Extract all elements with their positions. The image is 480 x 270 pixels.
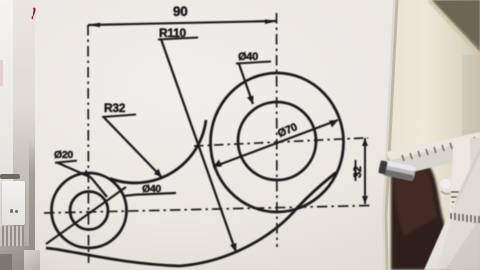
- diagonal ruler top of bottom-right: [384, 130, 480, 178]
- small circle outer Ø40: [52, 173, 127, 248]
- white eraser blob: [436, 175, 460, 197]
- dimension line 32: [364, 138, 366, 204]
- white socket box: [2, 181, 25, 225]
- arrow Ø70 right: [329, 120, 338, 128]
- centerline vertical big circle: [276, 13, 279, 247]
- svg-text:32: 32: [352, 166, 364, 178]
- radiator stripes bottom-left: [0, 226, 24, 248]
- underline R110: [158, 38, 198, 40]
- faint red object left edge: [0, 60, 3, 86]
- bottom-right corner ruler: [415, 140, 480, 270]
- tick left of dim 90: [88, 23, 100, 28]
- lifted paper corner light patch: [24, 250, 40, 270]
- arrow Ø40 big: [247, 96, 254, 105]
- svg-text:R110: R110: [159, 26, 186, 40]
- R110 arc: [46, 173, 336, 267]
- left wall band: [13, 0, 35, 270]
- right vertical ruler strip: [440, 132, 480, 270]
- underline R32: [102, 115, 136, 118]
- arrow R110: [230, 243, 237, 252]
- svg-text:Ø20: Ø20: [54, 149, 73, 161]
- left dark seam: [29, 140, 35, 270]
- svg-text:Ø40: Ø40: [238, 51, 258, 63]
- dimension diagonal Ø40 small: [46, 187, 126, 244]
- centerline vertical small circle: [87, 25, 90, 263]
- underline 32: [355, 160, 357, 181]
- underline Ø20: [55, 161, 77, 163]
- arrow 32 bottom: [362, 196, 368, 204]
- svg-text:Ø40: Ø40: [142, 183, 161, 195]
- leader R110: [161, 39, 236, 252]
- leader Ø40 small: [123, 195, 136, 196]
- svg-text:Ø70: Ø70: [276, 121, 299, 140]
- leader R32: [104, 118, 162, 178]
- underline Ø40 small: [136, 193, 176, 195]
- arrow R32: [154, 169, 162, 178]
- metallic cylinder: [377, 157, 419, 185]
- dimension line 90: [88, 21, 277, 25]
- svg-text:90: 90: [173, 4, 187, 19]
- dimension diagonal Ø70: [213, 120, 338, 167]
- leader Ø40 big: [239, 64, 253, 104]
- arrow 32 top: [362, 138, 368, 146]
- leader Ø20 continuation into circle: [91, 178, 107, 198]
- dark marker hand blob: [388, 148, 480, 270]
- dark bar above socket: [0, 174, 20, 179]
- right cream zone with slanted paper edge: [376, 0, 480, 270]
- svg-text:R32: R32: [104, 101, 126, 115]
- left white page strip: [0, 0, 13, 270]
- leader Ø20: [57, 163, 91, 178]
- underline Ø40 big: [236, 62, 271, 64]
- arrow Ø70 left: [213, 160, 222, 168]
- big circle outer Ø70: [211, 73, 344, 212]
- red pen mark: [28, 5, 44, 23]
- small circle inner Ø20: [70, 192, 108, 230]
- arrow Ø20: [83, 170, 92, 178]
- big circle inner Ø40: [238, 102, 316, 180]
- centerline horizontal big circle: [194, 138, 368, 146]
- tick right of dim 90: [265, 19, 277, 24]
- centerline horizontal small circle: [44, 206, 370, 214]
- R32 arc: [110, 120, 206, 183]
- top-right dark triangle: [415, 0, 480, 70]
